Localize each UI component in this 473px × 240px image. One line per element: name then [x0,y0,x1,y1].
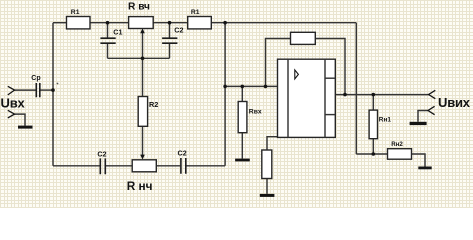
op-amp U1 body [278,59,336,137]
svg-text:C2: C2 [174,25,183,34]
wire: Rn1 bottom lead [372,139,374,154]
wire: R2 top lead [142,58,144,96]
op-amp amplifier triangle symbol [295,70,299,79]
wire: bottom rail C2 right to input bus [186,165,225,167]
capacitor C2 (bottom left) [100,158,105,174]
ground (Rn2) [418,167,431,170]
ground (Rvx) [235,159,250,162]
capacitor C1 [100,38,115,43]
wire: top rail R1b to right corner [211,22,356,24]
resistor Rn2 [388,149,412,160]
wire: non-inverting resistor to ground [266,179,268,194]
wire: Rvch wiper lead [142,32,144,58]
svg-text:C2: C2 [178,148,187,157]
wire: C1 bottom lead [107,43,109,58]
resistor Rn1 [369,110,377,139]
node: C2 top junction [168,21,172,25]
node: wiper junction on capacitor bus [141,57,145,61]
wire: top rail R1a to Rvch (through C1 node) [90,22,129,24]
wire: lower input terminal to ground [15,114,26,126]
capacitor C2 (bottom right) [181,158,186,174]
svg-text:C2: C2 [97,149,106,158]
svg-text:Rн2: Rн2 [391,141,403,148]
wire: top rail from left bus to R1a [53,22,67,24]
svg-text:Cр: Cр [31,75,40,82]
speck artifact near input [57,83,59,85]
wire: Rn1 top lead [372,95,374,111]
wire: bottom rail left bus to C2 left [53,165,100,167]
svg-text:R вч: R вч [128,2,150,13]
wire: R2 bottom lead with arrow to Rnch [142,126,144,155]
ground (input) [18,126,33,129]
resistor Rvx [238,102,247,133]
wire: feedback right branch down to output [315,39,345,95]
wire: bottom rail C2 left to Rnch [106,165,132,167]
svg-text:R2: R2 [149,100,158,109]
node: input coupling junction [51,88,55,92]
wire: C2 top lead [169,23,171,39]
wire: Rn2 to ground corner [412,154,426,167]
wire: C1 top lead [107,23,109,39]
wire: Rvx bottom lead to ground [241,133,243,159]
wire: output lower terminal to ground [418,111,428,122]
resistor R1 (left) [67,17,91,29]
ground (output) [410,122,427,125]
wire: Rvx top lead [241,86,243,101]
node: output feedback junction [343,93,347,97]
feedback resistor [291,32,316,44]
input terminal lower [8,110,15,118]
svg-text:Uвих: Uвих [438,95,471,110]
wire: non-inverting input lead [267,137,278,150]
wire: feedback left branch up and to resistor [266,39,291,87]
wire: capacitor bus between C1 and C2 [108,57,170,59]
svg-text:R нч: R нч [127,179,153,193]
svg-text:C1: C1 [113,27,122,36]
wire: Rnch wiper arrowhead down [140,155,145,160]
op-amp right field divider [324,59,326,137]
ground (non-inverting resistor) [260,194,275,197]
resistor R2 [138,97,147,127]
op-amp right field rung 2 [325,114,335,116]
svg-text:Rвх: Rвх [249,109,262,116]
output terminal lower [428,106,435,114]
output terminal upper [429,90,436,98]
node: Rn1 bottom junction [372,152,376,156]
node: C1 top junction [106,21,110,25]
wire: left vertical bus [52,23,54,166]
op-amp left field divider [287,59,289,137]
resistor R1 (right) [188,17,212,29]
wire: bottom rail Rnch to C2 right [156,165,180,167]
node: feedback junction [264,85,268,89]
potentiometer Rnch [132,160,156,172]
wire: wiper arrowhead up [140,28,145,33]
wire: C2 bottom lead [169,43,171,58]
wire: inverting input rail [225,85,277,87]
wire: top rail Rvch to R1b (through C2 node) [153,22,188,24]
input terminal upper [8,86,15,95]
node: inverting rail left junction [223,85,227,89]
wire: output rail [335,94,428,96]
op-amp right field rung 1 [325,77,335,79]
wire: Cp to left bus [40,89,53,91]
svg-text:Rн1: Rн1 [379,116,392,123]
node: Rvx junction [241,85,245,89]
capacitor C2 (top) [162,38,177,43]
capacitor Cp (input coupling) [36,83,40,97]
svg-text:R1: R1 [191,9,200,16]
potentiometer Rvch [129,17,154,29]
svg-text:R1: R1 [71,9,80,16]
node: top rail right junction [223,21,227,25]
wire: input terminal to Cp [15,89,36,91]
svg-text:Uвх: Uвх [1,96,26,111]
wire: right input bus vertical [224,23,226,166]
wire: top-right vertical drop to divider node [355,23,357,154]
wire: bottom-right rail to Rn2 [356,153,387,155]
node: Rn1 top junction [372,93,376,97]
resistor at non-inverting input [262,150,272,179]
